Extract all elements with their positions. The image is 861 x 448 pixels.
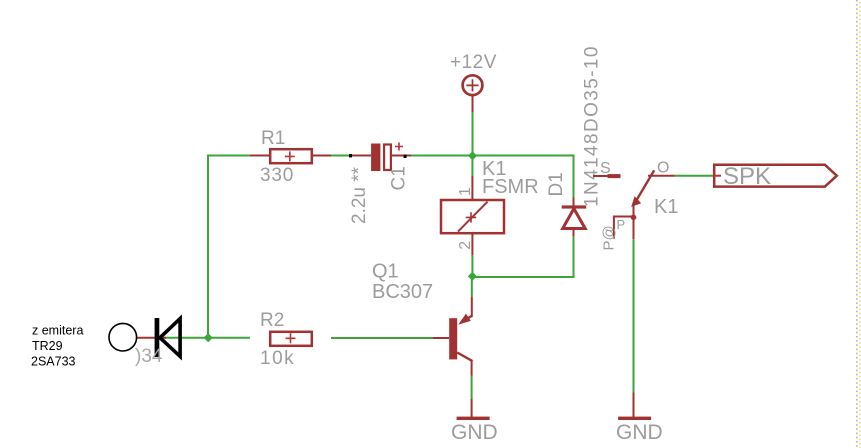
wire stub: C1 right lead [383,155,411,157]
wire stub: GND1 top stub [471,399,473,417]
svg-text:BC307: BC307 [372,281,433,303]
svg-text:z emitera: z emitera [32,324,83,338]
wire: relay pin2 green part [471,255,473,277]
svg-text:1: 1 [457,187,474,196]
wire: junction to transistor emitter (green) [471,277,473,297]
transistor Q1 base bar [449,318,457,359]
svg-text:2.2u **: 2.2u ** [349,166,370,224]
frame border dotted yellow line [859,2,861,448]
svg-text:1N4148DO35-10: 1N4148DO35-10 [582,45,603,207]
junction at relay pin2 / D1 / Q1 emitter node [468,272,477,281]
wire stub: Q1 base lead [433,337,449,339]
relay switch arm vertical stub [633,205,635,239]
svg-text:)34: )34 [135,346,163,367]
svg-text:R1: R1 [261,128,285,149]
diode D1 cathode bar [562,205,587,208]
wire stub: C1 left lead [350,155,371,157]
svg-text:GND: GND [451,421,498,444]
svg-text:330: 330 [260,165,294,186]
svg-text:2SA733: 2SA733 [31,355,76,369]
svg-text:P: P [617,217,626,232]
relay contact S pin lead [593,175,608,177]
wire: relay pin1 green part [471,156,473,177]
relay contact P bracket [614,217,634,239]
wire: top horizontal net, left green segment [208,156,250,339]
svg-text:+12V: +12V [450,52,497,73]
relay switch arm arrowhead [631,196,641,207]
input connector circle [109,323,137,351]
frame border dotted gray line [856,0,858,448]
relay coil diagonal [458,202,488,232]
resistor R1 [270,149,312,163]
junction at +12V / C1 / relay pin1 node [468,151,477,160]
ground GND1 bar [457,417,490,420]
capacitor C1 right plate (outlined) [384,145,391,171]
wire stub: Q1 collector lead to GND [471,360,473,376]
wire: bottom horizontal between relay and D1 (green) [472,236,573,277]
wire stub: input connector to black diode (dark red) [136,337,166,339]
transistor Q1 emitter vertical wire (dark red part) [471,297,473,318]
svg-text:O: O [657,160,669,177]
svg-text:Q1: Q1 [372,261,399,283]
wire stub: R1 left lead (dark red) [250,155,269,157]
wire: relay arm pivot down to GND (green part) [633,239,635,392]
resistor R2 polarity + mark [286,333,296,343]
svg-text:TR29: TR29 [32,339,63,353]
wire: C1 right to top junction and to D1 corner (green) [411,156,574,198]
svg-text:R2: R2 [260,310,284,331]
relay contact S plate (thick bar) [608,174,621,178]
wire: R2 to Q1 base (green) [331,337,433,339]
capacitor C1 polarity + mark [395,143,403,151]
wire stub: +12V symbol lead [472,95,474,112]
wire stub: GND2 top stub [633,393,635,418]
svg-text:SPK: SPK [723,163,771,190]
resistor R2 [270,332,312,346]
transistor Q1 emitter line (top) with arrow [461,316,472,323]
svg-text:D1: D1 [546,172,567,196]
relay coil + mark on diagonal [466,212,476,222]
svg-text:GND: GND [616,421,663,444]
svg-text:K1: K1 [654,196,678,218]
transistor Q1 collector line (bottom) [457,353,471,362]
wire: O contact to SPK flag (green part) [675,175,715,177]
SPK flag outline [714,165,837,187]
wire stub: relay pin 1 lead [471,176,473,200]
capacitor C1 left plate (filled) [371,144,380,172]
transistor Q1 emitter arrowhead [458,314,471,325]
svg-text:2: 2 [457,241,474,250]
wire stub: relay pin 2 lead [471,233,473,255]
wire: R1 right to C1 left (green part) [331,155,350,157]
svg-text:10k: 10k [260,348,295,369]
wire: input diode to bottom-left junction (green) [165,337,208,339]
diode D1 triangle (outline) [563,209,586,229]
svg-text:FSMR: FSMR [482,176,539,198]
relay contact O pin lead (dark red part) [648,175,675,177]
SPK flag pin tick [714,175,721,177]
wire stub: D1 cathode lead [573,198,575,207]
svg-text:S: S [600,160,611,177]
relay switch arm [636,170,654,201]
wire: junction to R2 (green) [208,337,250,339]
ground GND2 bar [618,417,651,420]
relay coil K1 [441,200,504,233]
wire stub: R1 right lead [313,155,331,157]
+12V supply symbol [463,75,483,95]
black junction dot left of C1 [349,154,352,157]
wire stub: D1 anode lead [573,229,575,237]
input diode (black) triangle [160,319,180,357]
svg-text:C1: C1 [389,166,410,190]
resistor R1 polarity + mark [285,151,295,161]
svg-text:P@: P@ [601,225,618,250]
relay switch pivot dot [631,215,637,221]
junction at input / R1 / R2 node [204,333,213,342]
black junction dot right of C1 [404,155,407,158]
wire: Q1 collector to GND (green part) [471,376,473,399]
wire: +12V stub green [472,112,474,156]
input diode (black) cathode bar [155,318,160,357]
